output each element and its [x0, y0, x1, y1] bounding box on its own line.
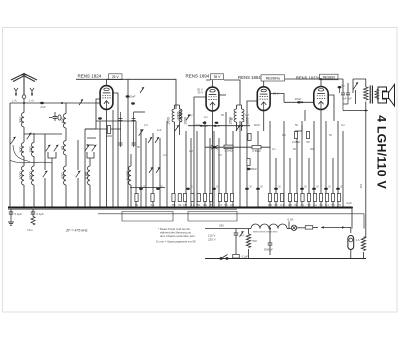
svg-text:4 LGH/110 V: 4 LGH/110 V	[375, 115, 389, 189]
antenna lead-in to circle	[23, 99, 25, 104]
wire coil0.100	[130, 154, 132, 208]
wire left cap to ground	[10, 209, 12, 218]
IFT2 trimmer	[236, 125, 240, 131]
junction grid row	[301, 101, 303, 103]
bus junction 33	[32, 207, 34, 209]
wire fuse to arrow	[313, 226, 318, 228]
resistor 0.5M horizontal	[252, 146, 261, 153]
decoupling capacitor at x=326	[324, 188, 328, 190]
tone switch	[353, 82, 358, 89]
resistor 0.2 at x=315	[313, 194, 317, 207]
coil 1000 left of V2	[176, 110, 181, 122]
svg-text:50: 50	[329, 133, 332, 137]
svg-text:0.1μF: 0.1μF	[37, 212, 44, 216]
padder trimmer b	[54, 145, 59, 152]
grid leak corner	[295, 126, 302, 132]
svg-text:50: 50	[293, 147, 296, 151]
tube V2 RENS1894	[206, 87, 219, 111]
wire reservoir	[269, 229, 271, 256]
svg-text:50: 50	[221, 113, 224, 117]
capacitor 2nF	[40, 102, 46, 109]
transformer core	[369, 86, 371, 104]
wire cap mains	[235, 229, 237, 259]
svg-text:2nF: 2nF	[40, 105, 46, 109]
svg-text:220 V: 220 V	[208, 238, 216, 242]
wire net ad	[337, 121, 339, 208]
bus junction x=128	[127, 207, 129, 209]
shield box A below bus	[122, 212, 173, 222]
svg-text:50: 50	[197, 203, 200, 207]
bus junction x=106.5	[106, 207, 108, 209]
svg-text:RES964a: RES964a	[266, 77, 280, 81]
speaker voice winding	[375, 90, 379, 100]
wire h 112 right	[134, 111, 146, 113]
svg-text:0,1μF: 0,1μF	[242, 255, 249, 258]
svg-text:50: 50	[230, 117, 233, 121]
chassis bus	[8, 207, 352, 209]
wire V2 grid left	[194, 97, 206, 121]
coil 2000	[19, 166, 24, 185]
wire net x	[301, 121, 303, 208]
svg-text:0.1: 0.1	[280, 203, 284, 207]
svg-text:25 V: 25 V	[273, 92, 279, 96]
svg-text:50: 50	[275, 203, 278, 207]
resistor 50 at x=276	[274, 194, 278, 207]
capacitor 1nF b	[346, 93, 350, 95]
bus junction x=141	[140, 207, 142, 209]
svg-text:0.5: 0.5	[337, 203, 341, 207]
wire net z	[313, 121, 315, 208]
svg-text:50nF: 50nF	[254, 123, 260, 127]
svg-text:0,3: 0,3	[144, 123, 148, 127]
svg-text:300: 300	[19, 146, 23, 152]
capacitor reservoir	[268, 243, 273, 245]
bus junction x=284	[283, 207, 285, 209]
rail junction 215	[214, 125, 216, 127]
bus junction x=314	[313, 207, 315, 209]
wire net k	[209, 138, 211, 208]
RF coil 100	[61, 114, 66, 129]
svg-text:50: 50	[332, 203, 335, 207]
resistor 50 under V4	[306, 132, 310, 145]
RF coil 65	[61, 141, 66, 155]
antenna terminal circle	[22, 95, 26, 99]
switch arrow mid4	[156, 167, 160, 173]
wire net aa	[320, 131, 322, 208]
wire V3 anode top	[263, 81, 265, 87]
svg-text:RENS 1894: RENS 1894	[186, 73, 210, 78]
svg-text:* Dieser Punkt muß bei der: * Dieser Punkt muß bei der	[158, 227, 190, 231]
wire net g	[185, 131, 187, 208]
test box 25V	[109, 74, 123, 80]
bus junction x=240	[239, 207, 241, 209]
bus junction x=153	[152, 207, 154, 209]
resistor 2M at x=173.5	[172, 194, 176, 207]
svg-text:1 A: 1 A	[356, 238, 360, 242]
voltage arrow	[321, 226, 345, 228]
wire net s	[269, 121, 271, 208]
decoupling capacitor at x=258	[256, 188, 260, 190]
svg-text:50: 50	[308, 203, 311, 207]
svg-text:0,1: 0,1	[272, 147, 276, 151]
wire net u	[283, 121, 285, 208]
resistor 0.3 at x=270	[268, 194, 272, 207]
junction top rail V4	[320, 78, 322, 80]
svg-text:10nF: 10nF	[129, 95, 136, 99]
wire cap1nF	[49, 112, 55, 121]
wire V2 anode top	[206, 80, 213, 87]
wire V3 cathode	[263, 111, 265, 131]
dial lamp	[291, 225, 296, 230]
fuse	[305, 226, 313, 229]
wire top rail V1 to IFT1	[107, 79, 177, 109]
capacitor 0.1uF left	[9, 212, 13, 214]
tick on right vertical	[364, 110, 368, 112]
wire net h	[190, 138, 192, 208]
resistor 2 at x=211	[209, 194, 212, 207]
wire to barretter	[345, 227, 351, 233]
bus junction x=338	[337, 207, 339, 209]
wire mid row	[205, 146, 270, 148]
detector diode cap	[211, 145, 218, 149]
wire under speaker	[343, 111, 366, 238]
trimmer stack 120	[119, 112, 123, 147]
resistor 0.1 at x=327	[325, 194, 329, 207]
coil 300	[19, 143, 24, 157]
wire net l	[213, 131, 215, 208]
voltage selector switch	[240, 231, 244, 237]
chassis ground left	[8, 218, 14, 225]
resistor 800 on bus	[233, 254, 240, 258]
svg-text:50: 50	[135, 203, 138, 207]
svg-text:1000: 1000	[246, 117, 250, 125]
resistor 50 at x=309	[307, 194, 311, 207]
junction at 62	[61, 102, 63, 104]
wire net b	[140, 129, 142, 208]
mains input wire	[205, 228, 251, 230]
wire V1 grid input	[96, 102, 100, 104]
wire band switch horiz	[24, 134, 62, 144]
svg-text:1000: 1000	[184, 117, 188, 125]
svg-text:während der Messung mit: während der Messung mit	[160, 231, 191, 235]
wire column 128	[127, 79, 129, 207]
antenna symbol	[11, 74, 37, 96]
coil 6500	[29, 166, 34, 185]
svg-text:5000: 5000	[106, 134, 112, 138]
bus junction x=90	[89, 207, 91, 209]
svg-text:0.2: 0.2	[313, 203, 317, 207]
bus junction x=173.5	[173, 207, 175, 209]
wire h-rail 187.5	[130, 187, 165, 189]
svg-text:450: 450	[359, 183, 363, 188]
wire V2 side right	[219, 94, 226, 96]
resistor 700	[246, 234, 250, 248]
wire coil350 to band row	[23, 103, 25, 142]
wire net r	[257, 131, 259, 208]
trimmer pair d	[92, 145, 97, 152]
svg-text:dem Chassis verbunden sein.: dem Chassis verbunden sein.	[160, 234, 196, 238]
trimmer pair c	[85, 145, 90, 152]
wire net m	[218, 138, 220, 208]
resistor 50 at x=321	[319, 194, 323, 207]
wire under label RENS1824	[76, 78, 109, 80]
decoupling capacitor at x=314	[312, 188, 316, 190]
svg-text:50: 50	[320, 203, 323, 207]
svg-text:50: 50	[295, 203, 298, 207]
trimmer stack 133	[132, 112, 136, 147]
wires trimmer pair cd	[87, 138, 96, 166]
wire coil650 to bus	[65, 185, 67, 208]
bus junction left	[10, 207, 12, 209]
svg-text:RENS 1823d: RENS 1823d	[296, 76, 321, 81]
bus junction x=297	[296, 207, 298, 209]
svg-text:1000: 1000	[176, 112, 180, 120]
wire net o	[232, 131, 234, 208]
decoupling capacitor at x=302	[300, 188, 304, 190]
wave switch on antenna line	[79, 99, 83, 105]
padder trimmer a	[46, 145, 51, 152]
resistor 0.2 at x=192.5	[191, 194, 195, 207]
wire tone switch	[353, 79, 358, 104]
svg-text:0,1: 0,1	[204, 115, 208, 119]
tube V1 RENS1824	[100, 86, 113, 110]
trimmer antenna pad	[10, 137, 15, 144]
junction reservoir top	[269, 228, 271, 230]
wire h 129	[85, 128, 121, 130]
svg-text:0.1: 0.1	[203, 203, 207, 207]
wire field coil	[364, 237, 366, 259]
svg-text:Ch•••: Ch•••	[27, 228, 33, 232]
svg-text:1nF: 1nF	[157, 128, 162, 132]
capacitor 50nF V2 cathode b	[213, 122, 220, 128]
resistor 1M at x=232	[230, 194, 234, 207]
resistor 0.2M	[248, 134, 251, 141]
wire net w	[296, 131, 298, 208]
svg-text:4 μF: 4 μF	[346, 201, 352, 205]
svg-text:350: 350	[19, 117, 23, 123]
switch arrow mid2	[155, 137, 159, 143]
resistor 50 at x=296	[294, 194, 298, 207]
svg-text:50: 50	[307, 140, 310, 144]
IFT2 primary	[234, 109, 236, 122]
junction bus right	[351, 207, 353, 209]
capacitor 10nF plate	[126, 95, 136, 99]
bus junction x=66	[65, 207, 67, 209]
wire net j	[204, 121, 206, 208]
wire trafo primary leads	[358, 79, 366, 111]
wire barretter to bus	[350, 250, 352, 259]
wire h-rail 121	[96, 120, 136, 122]
band switch 45	[43, 171, 48, 178]
bus lower line	[8, 208, 237, 210]
svg-text:0.1μF: 0.1μF	[15, 212, 22, 216]
resistor 50 at x=333	[331, 194, 335, 207]
bus junction x=197	[196, 207, 198, 209]
bus junction x=326	[325, 207, 327, 209]
aerial jack A1	[14, 88, 18, 96]
wire net d	[152, 133, 154, 208]
loudspeaker cone	[389, 85, 395, 107]
resistor 50 at x=179.8	[178, 194, 182, 207]
decoupling capacitor at x=247	[245, 188, 249, 190]
coil 650	[61, 166, 66, 185]
resistor 0.1 at x=152.5	[151, 194, 155, 207]
resistor 0.1 at x=205	[203, 194, 207, 207]
svg-text:ZF = 475 kHz: ZF = 475 kHz	[65, 229, 88, 233]
wire blob stub	[339, 87, 341, 93]
wire V2 cathode	[212, 111, 214, 208]
osc coil	[85, 166, 90, 185]
heater dropping chokes	[251, 224, 287, 229]
band switch mid	[76, 171, 81, 178]
svg-text:240: 240	[219, 224, 224, 228]
capacitor 50nF det	[131, 102, 135, 104]
IFT1 primary	[172, 109, 174, 122]
wire under coil300	[23, 157, 25, 167]
svg-text:5000μF: 5000μF	[264, 248, 273, 252]
decoupling capacitor at x=214	[212, 188, 216, 190]
choke to earth	[31, 217, 35, 225]
svg-text:700: 700	[252, 239, 257, 243]
tube V3 RENS1854	[257, 87, 270, 111]
capacitor 50nF V2 cathode a	[201, 122, 208, 128]
wire net f	[166, 121, 168, 208]
wire net e	[159, 138, 161, 208]
resistor 0.5M under V4	[292, 132, 300, 145]
wire V4 anode	[320, 79, 322, 87]
wire resistor700	[248, 229, 250, 259]
wire coil2000 to bus	[23, 185, 25, 208]
bus junction x=186	[185, 207, 187, 209]
wire V3 grid	[247, 101, 257, 131]
svg-text:RENS 1854: RENS 1854	[238, 75, 261, 80]
wire net p	[239, 121, 241, 208]
test box RES964a	[261, 75, 285, 81]
resistor AF	[247, 159, 250, 166]
antenna coil 350	[19, 113, 24, 128]
wire net n	[225, 112, 227, 208]
svg-text:50: 50	[137, 145, 140, 149]
bus junction x=167	[166, 207, 168, 209]
wire net i	[196, 131, 198, 208]
svg-text:10nF: 10nF	[295, 97, 302, 101]
svg-text:150: 150	[29, 146, 33, 152]
wire osc coil to bus	[89, 185, 91, 208]
wires output caps	[343, 79, 353, 93]
wire V4 cathode	[320, 110, 322, 132]
wire column 113	[112, 110, 114, 208]
bus junction x=24	[23, 207, 25, 209]
svg-text:11 mm = Spannungswerte zur 5K: 11 mm = Spannungswerte zur 5K	[156, 240, 196, 244]
svg-text:1nF 1nF: 1nF 1nF	[342, 97, 352, 101]
footnote block	[156, 227, 196, 244]
wire column 194	[193, 121, 195, 208]
capacitor 10nF coupling V4	[295, 97, 302, 103]
capacitor 1nF a	[341, 93, 345, 95]
IFT2 secondary	[242, 109, 244, 122]
svg-text:0,3MΩ: 0,3MΩ	[225, 149, 233, 153]
resistor 0.5 at x=339	[337, 194, 341, 207]
wire V2 top rail	[224, 80, 240, 105]
svg-text:50: 50	[225, 203, 228, 207]
capacitor 4uF mains	[234, 233, 245, 237]
type box RES964	[320, 74, 339, 80]
resistor 50 at x=198.8	[197, 194, 201, 207]
capacitor 4uF top right	[338, 83, 345, 88]
svg-text:35 V: 35 V	[214, 75, 222, 79]
svg-text:0.5: 0.5	[218, 203, 222, 207]
junction speaker return	[365, 110, 367, 112]
trimmer row1	[27, 133, 32, 140]
svg-text:0.1: 0.1	[151, 203, 155, 207]
decoupling capacitor at x=338	[336, 188, 340, 190]
capacitor 1nF coupling	[53, 117, 58, 119]
wire V4 screen	[328, 95, 334, 121]
svg-text:•1,5A: •1,5A	[287, 218, 294, 222]
svg-text:50: 50	[295, 123, 298, 127]
svg-text:50: 50	[178, 203, 181, 207]
wire coil100 leads	[65, 103, 67, 141]
coil 150	[29, 143, 34, 157]
IFT1 leads	[175, 105, 180, 208]
resistor 0.5 at x=220	[218, 194, 222, 207]
decoupling capacitor at x=276	[274, 188, 278, 190]
loudspeaker coil box	[383, 92, 389, 99]
wire net y	[308, 158, 310, 208]
antenna input wire	[10, 102, 96, 104]
wire cap2 lead	[32, 209, 34, 216]
wire left screen	[96, 99, 100, 110]
svg-text:0,1: 0,1	[163, 153, 167, 157]
svg-text:65: 65	[61, 146, 65, 150]
wire V3 right tap	[270, 94, 314, 103]
bottom return bus	[205, 258, 366, 260]
svg-text:RENS RENS RENS RES: RENS RENS RENS RES	[253, 231, 278, 233]
coil 0.100	[126, 166, 131, 185]
rail junction 242	[241, 125, 243, 127]
cathode resistor tube1	[106, 126, 112, 139]
capacitor 50nF AF	[247, 167, 257, 171]
decoupling capacitor at x=141	[139, 188, 143, 190]
svg-text:0.1: 0.1	[325, 203, 329, 207]
svg-text:650: 650	[61, 172, 65, 178]
bus junction x=270	[269, 207, 271, 209]
wire chokes to lamp	[287, 228, 291, 230]
antenna apex arrowhead	[21, 73, 26, 76]
decoupling capacitor at x=158	[156, 188, 160, 190]
wire net a	[135, 121, 137, 208]
svg-text:6500: 6500	[29, 171, 33, 179]
switch arrow near tube1 plate	[140, 87, 144, 93]
wire padders	[48, 152, 56, 166]
wire bus right drop	[351, 208, 353, 229]
bus junction x=212.5	[212, 207, 214, 209]
output transformer primary	[364, 87, 368, 100]
wire coil6500 to bus	[33, 185, 35, 208]
resistor 1M at x=185	[183, 194, 187, 207]
aerial jack A2	[30, 88, 34, 96]
mains switch	[220, 255, 228, 260]
wire column 100	[99, 121, 101, 208]
svg-text:0,5: 0,5	[218, 153, 222, 157]
svg-text:0,5MΩ: 0,5MΩ	[253, 149, 261, 153]
resistor 0.3M horizontal	[224, 145, 233, 152]
wire top rail right	[285, 78, 343, 80]
loudspeaker magnet pot	[378, 87, 387, 103]
wire switch column 45	[44, 144, 46, 208]
bus junction x=34	[33, 207, 35, 209]
test box 35V	[211, 74, 224, 80]
